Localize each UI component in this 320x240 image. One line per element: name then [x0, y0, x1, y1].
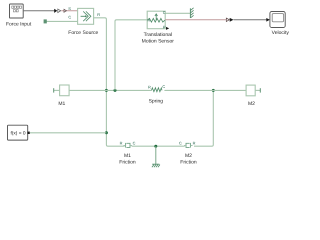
block M1 (mass): [54, 85, 69, 96]
wire Force Input to converter: [23, 10, 54, 12]
svg-text:M1: M1: [58, 101, 65, 107]
junction dot rail/vertical2: [114, 89, 117, 92]
arrowhead open: [58, 9, 61, 13]
arrowhead filled (Simulink signal): [54, 9, 57, 13]
wire C stub: [47, 20, 78, 22]
junction dot rail/M2 friction: [212, 89, 215, 92]
junction dot ground: [154, 145, 157, 148]
converter arrowhead open (output side): [226, 18, 229, 21]
wire M2 Friction R up to rail: [194, 90, 213, 146]
svg-text:Force Source: Force Source: [68, 30, 98, 36]
arrowhead into Velocity: [266, 18, 270, 22]
svg-text:R: R: [193, 140, 196, 145]
wire rail left segment (M1 to spring): [69, 89, 151, 91]
svg-text:C: C: [133, 140, 136, 145]
block Velocity (scope): [270, 12, 285, 28]
svg-text:R: R: [120, 140, 123, 145]
mechanical reference wall: [190, 8, 193, 18]
svg-text:Spring: Spring: [149, 98, 164, 104]
wire sensor R down to rail: [115, 20, 147, 91]
svg-text:Friction: Friction: [180, 160, 197, 166]
svg-text:S: S: [68, 6, 71, 11]
wire solver to node: [30, 132, 107, 134]
wire converter to Velocity scope: [234, 19, 267, 21]
svg-text:R: R: [97, 12, 100, 17]
converter arrowhead open (dark): [64, 9, 66, 12]
svg-text:Friction: Friction: [119, 160, 136, 166]
M2 Friction icon: [184, 143, 193, 148]
block Translational Motion Sensor: [147, 11, 165, 29]
svg-text:Velocity: Velocity: [272, 30, 290, 36]
svg-text:C: C: [163, 10, 166, 15]
svg-text:R: R: [147, 18, 150, 23]
block solver f(x)=0: [8, 125, 30, 140]
M1 Friction icon: [123, 143, 132, 148]
svg-text:C: C: [162, 84, 165, 89]
wire sensor C to reference wall: [165, 12, 190, 14]
junction dot solver line: [105, 131, 108, 134]
open conserving port stub: [44, 19, 47, 23]
svg-text:Force Input: Force Input: [6, 22, 32, 28]
svg-text:Translational: Translational: [144, 32, 172, 38]
svg-text:C: C: [179, 140, 182, 145]
wire rail right segment (spring to M2): [164, 89, 246, 91]
block M2 (mass): [246, 85, 260, 96]
arrowhead filled (output side): [230, 18, 234, 22]
svg-text:M2: M2: [185, 153, 192, 159]
svg-text:C: C: [68, 14, 71, 19]
svg-text:M2: M2: [248, 101, 255, 107]
svg-text:R: R: [148, 84, 151, 89]
svg-text:Motion Sensor: Motion Sensor: [142, 39, 175, 45]
wire sensor V output (red physical signal): [165, 19, 226, 21]
svg-text:M1: M1: [124, 153, 131, 159]
junction dot rail/vertical1: [105, 89, 108, 92]
wire Force Source R down to M1 Friction R: [94, 18, 125, 146]
block Force Source: [78, 8, 94, 24]
block Force Input (signal source): [10, 4, 24, 18]
spring icon: [152, 88, 163, 92]
ground reference: [152, 146, 160, 167]
wire physical signal into S port (red): [61, 10, 77, 12]
wire friction row mid segment: [132, 145, 185, 147]
svg-text:f(x) = 0: f(x) = 0: [10, 130, 25, 136]
sensor P output arrowhead: [166, 27, 169, 30]
svg-text:P: P: [163, 24, 166, 29]
